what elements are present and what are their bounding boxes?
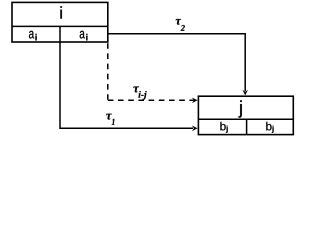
label b_j left cell - b [220,122,225,131]
label b_j right cell - b [266,122,271,131]
label a_i right cell - a [80,31,85,39]
label a_i left cell - subscript i [35,34,36,41]
dashed wire tau_i-j horizontal segment (right to box j left edge) [108,99,194,101]
task box i row divider [12,25,108,27]
label a_i right cell - subscript i [86,34,87,41]
label j [239,100,242,117]
arrowhead right into box j left edge (upper, dashed wire) [192,98,198,104]
task box j row divider [198,118,293,120]
label tau_i-j - tau [133,87,139,93]
label b_j left cell - subscript j [226,126,228,133]
label tau_1 - tau [106,114,112,120]
task box j cell divider [246,119,248,134]
label tau_i-j - subscript i-j [138,91,146,100]
arrowhead down into box j top [242,90,248,96]
wire tau2 (from right edge of box i, over and down to top of box j) [108,34,245,91]
task box i (outer rectangle) [12,2,108,42]
label tau_2 - subscript 2 [181,25,185,31]
label tau_2 - tau [176,19,181,25]
label a_i left cell - a [29,31,34,39]
wire tau1 (from bottom of box i divider, down and right to box j left edge) [60,42,193,128]
arrowhead right into box j left edge (lower) [192,126,198,132]
label i [60,6,61,18]
task box i cell divider [59,26,61,42]
label tau_1 - subscript 1 [112,119,115,125]
dashed wire tau_i-j vertical segment (down from bottom right corner of box i) [107,43,109,100]
label b_j right cell - subscript j [272,126,274,133]
task box j (outer rectangle) [198,96,293,134]
